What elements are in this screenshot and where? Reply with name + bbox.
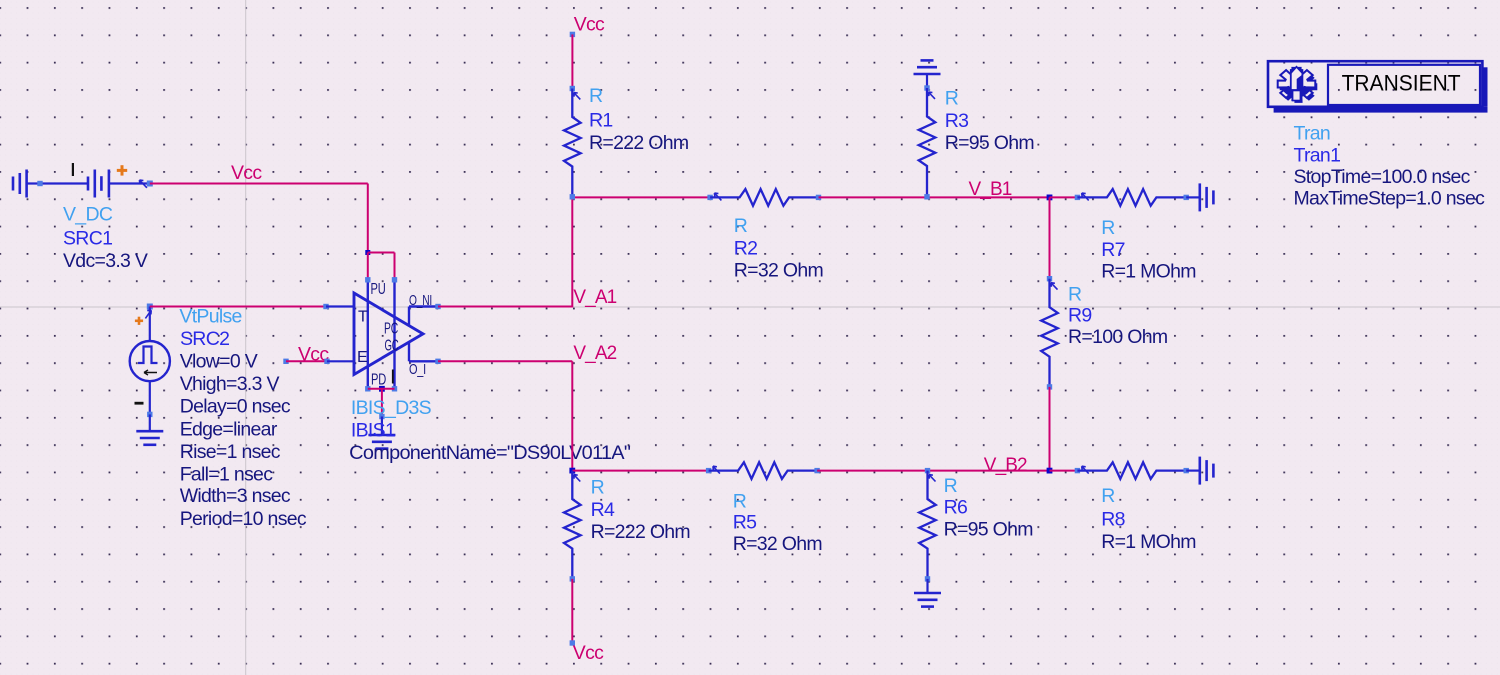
svg-text:Vcc: Vcc [573,642,604,664]
svg-text:Width=3 nsec: Width=3 nsec [180,485,291,507]
svg-text:R=222 Ohm: R=222 Ohm [589,132,688,154]
wire V_A1 to R2 [572,196,710,198]
anchor arrow R2 [714,193,721,200]
ground GND IBIS1 [368,434,395,437]
wire Vcc stub to R1 [571,34,573,88]
wire VB1 to R7 [1050,196,1078,198]
rail PU vertical [367,280,369,389]
svg-text:Period=10 nsec: Period=10 nsec [180,508,307,530]
resistor R9 [1041,279,1058,387]
junction square PD [379,386,385,392]
svg-text:R9: R9 [1068,305,1092,327]
svg-text:V_B2: V_B2 [984,455,1027,476]
node square E pin [324,359,329,364]
wire Vcc horizontal [150,183,368,185]
svg-text:R=1 MOhm: R=1 MOhm [1101,261,1196,283]
transient outer box [1268,61,1482,107]
svg-text:V_DC: V_DC [63,203,113,225]
node square T pin [323,304,328,309]
node square O_NI [435,304,440,309]
ground GND R3 top [914,73,941,76]
svg-text:V_B1: V_B1 [969,179,1012,200]
svg-text:O_I: O_I [409,361,426,378]
wire R5 to VB2 [817,470,1049,472]
junction square V_B2 [1047,468,1053,474]
svg-text:Vcc: Vcc [574,14,605,36]
transient shadow right [1482,67,1487,107]
wire R4 to Vcc stub [571,579,573,643]
node square Vcc stub end [283,359,288,364]
svg-text:R1: R1 [589,109,613,131]
ground GND R7 [1199,183,1202,211]
svg-text:R=100 Ohm: R=100 Ohm [1068,326,1167,348]
wire rail split horizontal [368,252,395,254]
svg-text:R: R [945,88,959,110]
svg-text:Vhigh=3.3 V: Vhigh=3.3 V [180,373,280,395]
wire rail right drop [394,253,396,280]
anchor arrow R3 [928,92,935,99]
anchor arrow R9 [1051,283,1058,290]
node square R4 bottom [570,576,575,581]
node square Vcc top stub [570,32,575,37]
op-amp triangle IBIS1 [354,293,423,375]
node square PD bottom-left [365,386,370,391]
axis line horizontal [0,306,1500,308]
svg-text:MaxTimeStep=1.0 nsec: MaxTimeStep=1.0 nsec [1294,187,1486,209]
node square SRC2 bottom [147,412,152,417]
resistor R5 [709,462,818,479]
anchor arrow R8 [1082,466,1089,473]
anchor arrow R4 [574,475,581,482]
resistor R3 [919,88,936,196]
junction square V_B1 [1047,195,1053,201]
gear icon [1280,71,1318,103]
svg-text:R: R [589,85,603,107]
node square R7 left [1075,195,1080,200]
wire E pin lead [327,360,355,362]
wire R7 to ground [1186,196,1200,198]
svg-text:PD: PD [371,372,386,389]
svg-text:Tran1: Tran1 [1294,144,1341,166]
wire VB2 to R8 [1050,470,1078,472]
junction square V_A2 R4 [569,468,575,474]
node square PC top [392,277,397,282]
wire SRC2 to ground [149,414,151,431]
svg-text:V_A2: V_A2 [573,343,616,364]
wire R3 gnd lead [926,74,928,88]
svg-text:R: R [1101,485,1115,507]
resistor R2 [710,189,819,206]
wire SRC2 top lead [149,307,151,342]
anchor arrow R1 [574,93,581,100]
node square Vcc bottom stub [570,640,575,645]
svg-text:R: R [944,475,958,497]
node square SRC2 top [147,304,153,310]
svg-text:IBIS_D3S: IBIS_D3S [351,397,432,419]
node square R2 right [816,195,821,200]
node square PU top [365,277,370,282]
svg-text:R8: R8 [1101,508,1125,530]
wire Vcc stub [286,360,327,362]
svg-text:VtPulse: VtPulse [179,306,241,328]
wire T pin lead [326,305,355,307]
svg-text:SRC1: SRC1 [63,227,112,249]
svg-text:StopTime=100.0 nsec: StopTime=100.0 nsec [1294,166,1471,188]
node square R2 left [707,195,712,200]
V_DC battery plates U1 [87,177,90,191]
anchor arrow R7 [1082,193,1089,200]
node square R9 bottom [1047,384,1052,389]
resistor R8 [1077,462,1186,479]
node square PD gnd stub [379,414,384,419]
node square O_I [435,359,440,364]
svg-text:R=1 MOhm: R=1 MOhm [1101,531,1196,553]
wire R9 to VB2 [1049,387,1051,471]
svg-text:T: T [358,309,368,326]
svg-text:R4: R4 [591,499,615,521]
svg-text:PU: PU [371,281,386,298]
ground GND-left of SRC1 [25,170,28,198]
node square R5 right [814,468,819,473]
svg-text:GC: GC [385,338,399,355]
wire O_NI to V_A1 corner [438,306,572,308]
svg-text:PC: PC [384,321,398,338]
axis line vertical [245,0,247,675]
svg-text:O_NI: O_NI [409,292,432,309]
svg-text:E: E [357,349,368,366]
resistor R6 [919,471,936,579]
wire V_A2 vertical [571,361,573,470]
wire PD row [368,388,395,390]
ground GND R6 [914,592,941,595]
svg-text:ComponentName="DS90LV011A": ComponentName="DS90LV011A" [349,442,631,464]
svg-text:Tran: Tran [1294,122,1331,144]
svg-text:R: R [1068,283,1082,305]
svg-text:SRC2: SRC2 [180,328,229,350]
resistor R7 [1077,189,1186,206]
svg-text:Edge=linear: Edge=linear [180,419,278,441]
node square R9 top [1047,276,1052,281]
wire V_A2 to R5 [572,470,708,472]
node square R6 top [925,468,930,473]
wire PD to ground [381,389,383,417]
anchor arrow SRC1 [139,180,147,188]
node square R8 left [1075,468,1080,473]
pulse arrow [144,370,157,375]
ground GND R8 [1199,457,1202,485]
resistor R1 [564,89,581,197]
svg-text:Vcc: Vcc [231,162,262,184]
svg-text:R: R [591,477,605,499]
svg-text:Delay=0 nsec: Delay=0 nsec [180,396,291,418]
junction square PU/PC [365,250,370,255]
ground GND SRC2 [136,430,163,433]
wire rail left drop [367,253,369,280]
svg-text:R3: R3 [945,110,969,132]
svg-text:R: R [1101,217,1115,239]
svg-text:V_A1: V_A1 [573,287,616,308]
node square R3 top [924,85,929,90]
svg-text:R=95 Ohm: R=95 Ohm [944,518,1033,540]
svg-text:TRANSIENT: TRANSIENT [1342,71,1461,96]
node square battery left [37,181,42,186]
svg-text:R=32 Ohm: R=32 Ohm [733,533,822,555]
wire R2 to VB1 junction [819,196,1050,198]
svg-text:R=32 Ohm: R=32 Ohm [734,260,823,282]
anchor arrow R5 [713,466,720,473]
wire battery right [109,182,150,184]
node square R8 right [1184,468,1189,473]
wire Vcc down to rails [367,184,369,253]
pulse source circle SRC2 [130,341,170,381]
wire O_I to V_A2 corner [438,360,572,362]
node square GC bottom-right [392,386,397,391]
svg-text:Vlow=0 V: Vlow=0 V [180,351,258,373]
anchor arrow R6 [929,475,936,482]
pin cursor mark [392,370,394,384]
svg-text:R2: R2 [734,237,758,259]
wire battery left [27,182,88,184]
wire R6 to ground [926,579,928,593]
wire T input net [150,306,326,308]
svg-text:R=95 Ohm: R=95 Ohm [945,132,1034,154]
svg-text:R: R [734,215,748,237]
minus sign SRC2 [135,402,144,405]
pulse glyph [138,347,158,364]
wire R8 to ground [1186,470,1200,472]
node square R6 bottom [925,576,930,581]
svg-text:R7: R7 [1101,239,1125,261]
O_NI output stub [408,307,410,326]
transient shadow bottom [1274,107,1488,113]
resistor R4 [564,471,581,579]
svg-text:IBIS1: IBIS1 [351,419,395,441]
plus sign SRC2 [135,319,143,322]
svg-text:R6: R6 [944,497,968,519]
plus sign SRC1 [117,169,127,172]
svg-text:R: R [733,490,747,512]
svg-text:R5: R5 [733,511,757,533]
node square battery output [147,181,153,187]
rail PC vertical [393,280,395,389]
label I current mark [72,163,74,176]
wire PD gnd lead [381,417,383,436]
wire SRC2 bottom lead [149,381,151,414]
svg-text:Vdc=3.3 V: Vdc=3.3 V [63,250,148,272]
node square R3 bottom [924,194,929,199]
node square R1 bottom [570,194,575,199]
transient inner box [1328,65,1480,105]
wire V_A1 vertical [571,197,573,307]
node square R1 top [570,86,575,91]
svg-text:Rise=1 nsec: Rise=1 nsec [180,441,281,463]
node square R5 left [706,468,711,473]
node square R7 right [1184,195,1189,200]
svg-text:Fall=1 nsec: Fall=1 nsec [180,463,274,485]
svg-text:R=222 Ohm: R=222 Ohm [591,521,690,543]
wire VB1 down to R9 [1049,197,1051,278]
anchor arrow SRC2 [145,310,151,318]
O_I output stub [408,342,410,361]
